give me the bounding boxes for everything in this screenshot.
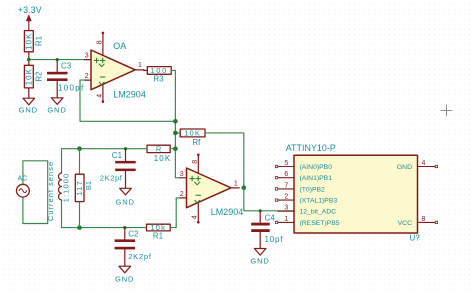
svg-text:GND: GND <box>47 105 66 114</box>
pin 2 <box>180 197 187 199</box>
svg-text:(RESET)PB5: (RESET)PB5 <box>300 220 340 227</box>
IC U? ATTINY10-P <box>286 143 421 243</box>
svg-text:LM2904: LM2904 <box>113 89 146 99</box>
svg-text:4: 4 <box>192 215 199 219</box>
svg-text:1: 1 <box>234 180 238 187</box>
svg-text:U?: U? <box>410 234 421 243</box>
svg-text:10K: 10K <box>184 129 201 138</box>
ground under C2 <box>115 266 134 283</box>
internal marks <box>190 176 201 181</box>
pin 1 (RESET)PB5 <box>275 216 339 227</box>
svg-text:7: 7 <box>284 182 288 189</box>
resistor Rf <box>175 129 205 147</box>
svg-text:GND: GND <box>116 198 135 207</box>
ground under C4 <box>250 249 269 266</box>
pin 2 (XTAL1)PB3 <box>275 194 337 205</box>
svg-text:C1: C1 <box>112 151 123 160</box>
op-amp U2 (LM2904) <box>180 154 244 224</box>
junction feedback <box>173 119 178 124</box>
svg-text:Rf: Rf <box>192 138 201 147</box>
capacitor C4 <box>251 211 283 249</box>
svg-text:3: 3 <box>85 53 89 60</box>
svg-text:VCC: VCC <box>398 220 412 227</box>
svg-text:AC: AC <box>18 175 28 182</box>
resistor R1 <box>24 31 43 60</box>
svg-text:10K: 10K <box>25 32 34 50</box>
svg-text:ATTINY10-P: ATTINY10-P <box>286 143 336 153</box>
svg-text:6: 6 <box>284 171 288 178</box>
svg-text:5: 5 <box>284 160 288 167</box>
junction opamp2 output <box>242 185 247 190</box>
resistor R2 <box>24 60 43 98</box>
svg-text:3: 3 <box>284 205 288 212</box>
pin 1 output <box>135 69 143 71</box>
junction C1 top <box>124 147 127 150</box>
pin 1 output <box>231 187 239 189</box>
svg-text:1: 1 <box>284 216 288 223</box>
wire transformer bottom rail <box>62 200 147 228</box>
internal + marks <box>94 58 105 63</box>
pin 4 <box>102 84 104 101</box>
wire transformer top rail <box>62 149 148 173</box>
svg-text:2K2pf: 2K2pf <box>128 252 152 261</box>
capacitor C3 <box>47 60 85 98</box>
svg-text:R3: R3 <box>153 74 164 83</box>
resistor R3 <box>144 66 172 83</box>
svg-text:10k: 10k <box>150 223 166 232</box>
svg-text:R: R <box>156 145 162 154</box>
pin 3 12_bit_ADC <box>278 205 336 216</box>
capacitor C1 <box>100 149 136 189</box>
capacitor C2 <box>115 228 152 267</box>
svg-text:C4: C4 <box>265 213 276 222</box>
svg-text:3: 3 <box>180 171 184 178</box>
junction B1 top <box>77 146 82 151</box>
svg-text:2: 2 <box>284 194 288 201</box>
pin 4 <box>197 203 199 223</box>
svg-text:GND: GND <box>397 164 412 171</box>
pin 8 <box>197 155 199 173</box>
pin 3 <box>84 59 91 61</box>
svg-text:1: 1 <box>138 62 142 69</box>
svg-text:(AIN1)PB1: (AIN1)PB1 <box>300 175 333 182</box>
junction C2 top <box>123 226 126 229</box>
AC source <box>17 161 48 224</box>
pin 3 <box>180 177 187 179</box>
svg-text:GND: GND <box>19 106 38 115</box>
ground under R2 <box>19 98 38 114</box>
svg-text:C3: C3 <box>61 62 72 71</box>
svg-text:(AIN0)PB0: (AIN0)PB0 <box>300 164 333 171</box>
junction at C3 top <box>56 58 59 61</box>
svg-text:Current sense: Current sense <box>46 161 55 221</box>
op-amp U1 (OA LM2904) <box>84 32 146 103</box>
wire feedback opamp1 pin2 <box>80 80 175 121</box>
resistor B1 <box>75 149 93 228</box>
resistor R <box>147 145 175 163</box>
wire R3 output down the main column <box>171 70 180 177</box>
pin 7 (T0)PB2 <box>275 182 325 193</box>
svg-text:1:1000: 1:1000 <box>62 173 71 203</box>
svg-text:2K2pf: 2K2pf <box>100 174 123 183</box>
pin 2 <box>84 79 91 81</box>
svg-text:4: 4 <box>422 160 426 167</box>
ground under C3 <box>47 98 66 115</box>
resistor R1 (10k bottom) <box>147 223 171 241</box>
junction at R1/R2 <box>27 58 31 62</box>
wire Rf to opamp2 output <box>205 133 244 188</box>
pin 6 (AIN1)PB1 <box>275 171 332 182</box>
svg-text:LM2904: LM2904 <box>211 207 244 217</box>
ground under C1 <box>116 188 135 206</box>
svg-text:8: 8 <box>422 216 426 223</box>
svg-text:10K: 10K <box>154 154 172 163</box>
svg-text:R2: R2 <box>34 71 43 82</box>
power +3.3V <box>18 5 42 31</box>
wire output to ADC pin <box>244 188 294 211</box>
svg-text:+3.3V: +3.3V <box>18 5 42 15</box>
svg-text:2: 2 <box>180 191 184 198</box>
junction B1 bottom <box>77 225 82 230</box>
pin 8 VCC <box>398 216 438 227</box>
svg-text:C2: C2 <box>128 229 139 238</box>
pin 5 (AIN0)PB0 <box>275 160 332 171</box>
svg-text:OA: OA <box>113 41 126 51</box>
svg-text:117: 117 <box>75 180 84 195</box>
svg-text:(T0)PB2: (T0)PB2 <box>300 186 326 193</box>
wire R1 to opamp2 pin2 <box>170 198 180 228</box>
svg-text:4: 4 <box>96 94 103 98</box>
svg-text:GND: GND <box>250 257 269 266</box>
svg-text:10K: 10K <box>25 68 34 86</box>
transformer coil (current sense) <box>46 161 71 221</box>
wire R1/R2 junction to op-amp pin 3 <box>29 59 85 61</box>
pin 8 <box>102 33 104 55</box>
svg-text:B1: B1 <box>84 181 93 190</box>
junction Rf <box>173 131 178 136</box>
svg-text:2: 2 <box>85 73 89 80</box>
svg-text:10pf: 10pf <box>265 235 284 244</box>
svg-text:8: 8 <box>192 160 199 164</box>
junction R right <box>173 146 178 151</box>
junction C4 top <box>259 209 262 212</box>
cursor crosshair <box>441 105 452 116</box>
svg-text:R1: R1 <box>34 35 43 46</box>
svg-text:8: 8 <box>96 40 103 44</box>
svg-text:R1: R1 <box>153 232 164 241</box>
svg-text:12_bit_ADC: 12_bit_ADC <box>300 209 337 216</box>
svg-text:GND: GND <box>115 275 134 284</box>
svg-text:(XTAL1)PB3: (XTAL1)PB3 <box>300 198 338 205</box>
pin 4 GND <box>397 160 438 171</box>
